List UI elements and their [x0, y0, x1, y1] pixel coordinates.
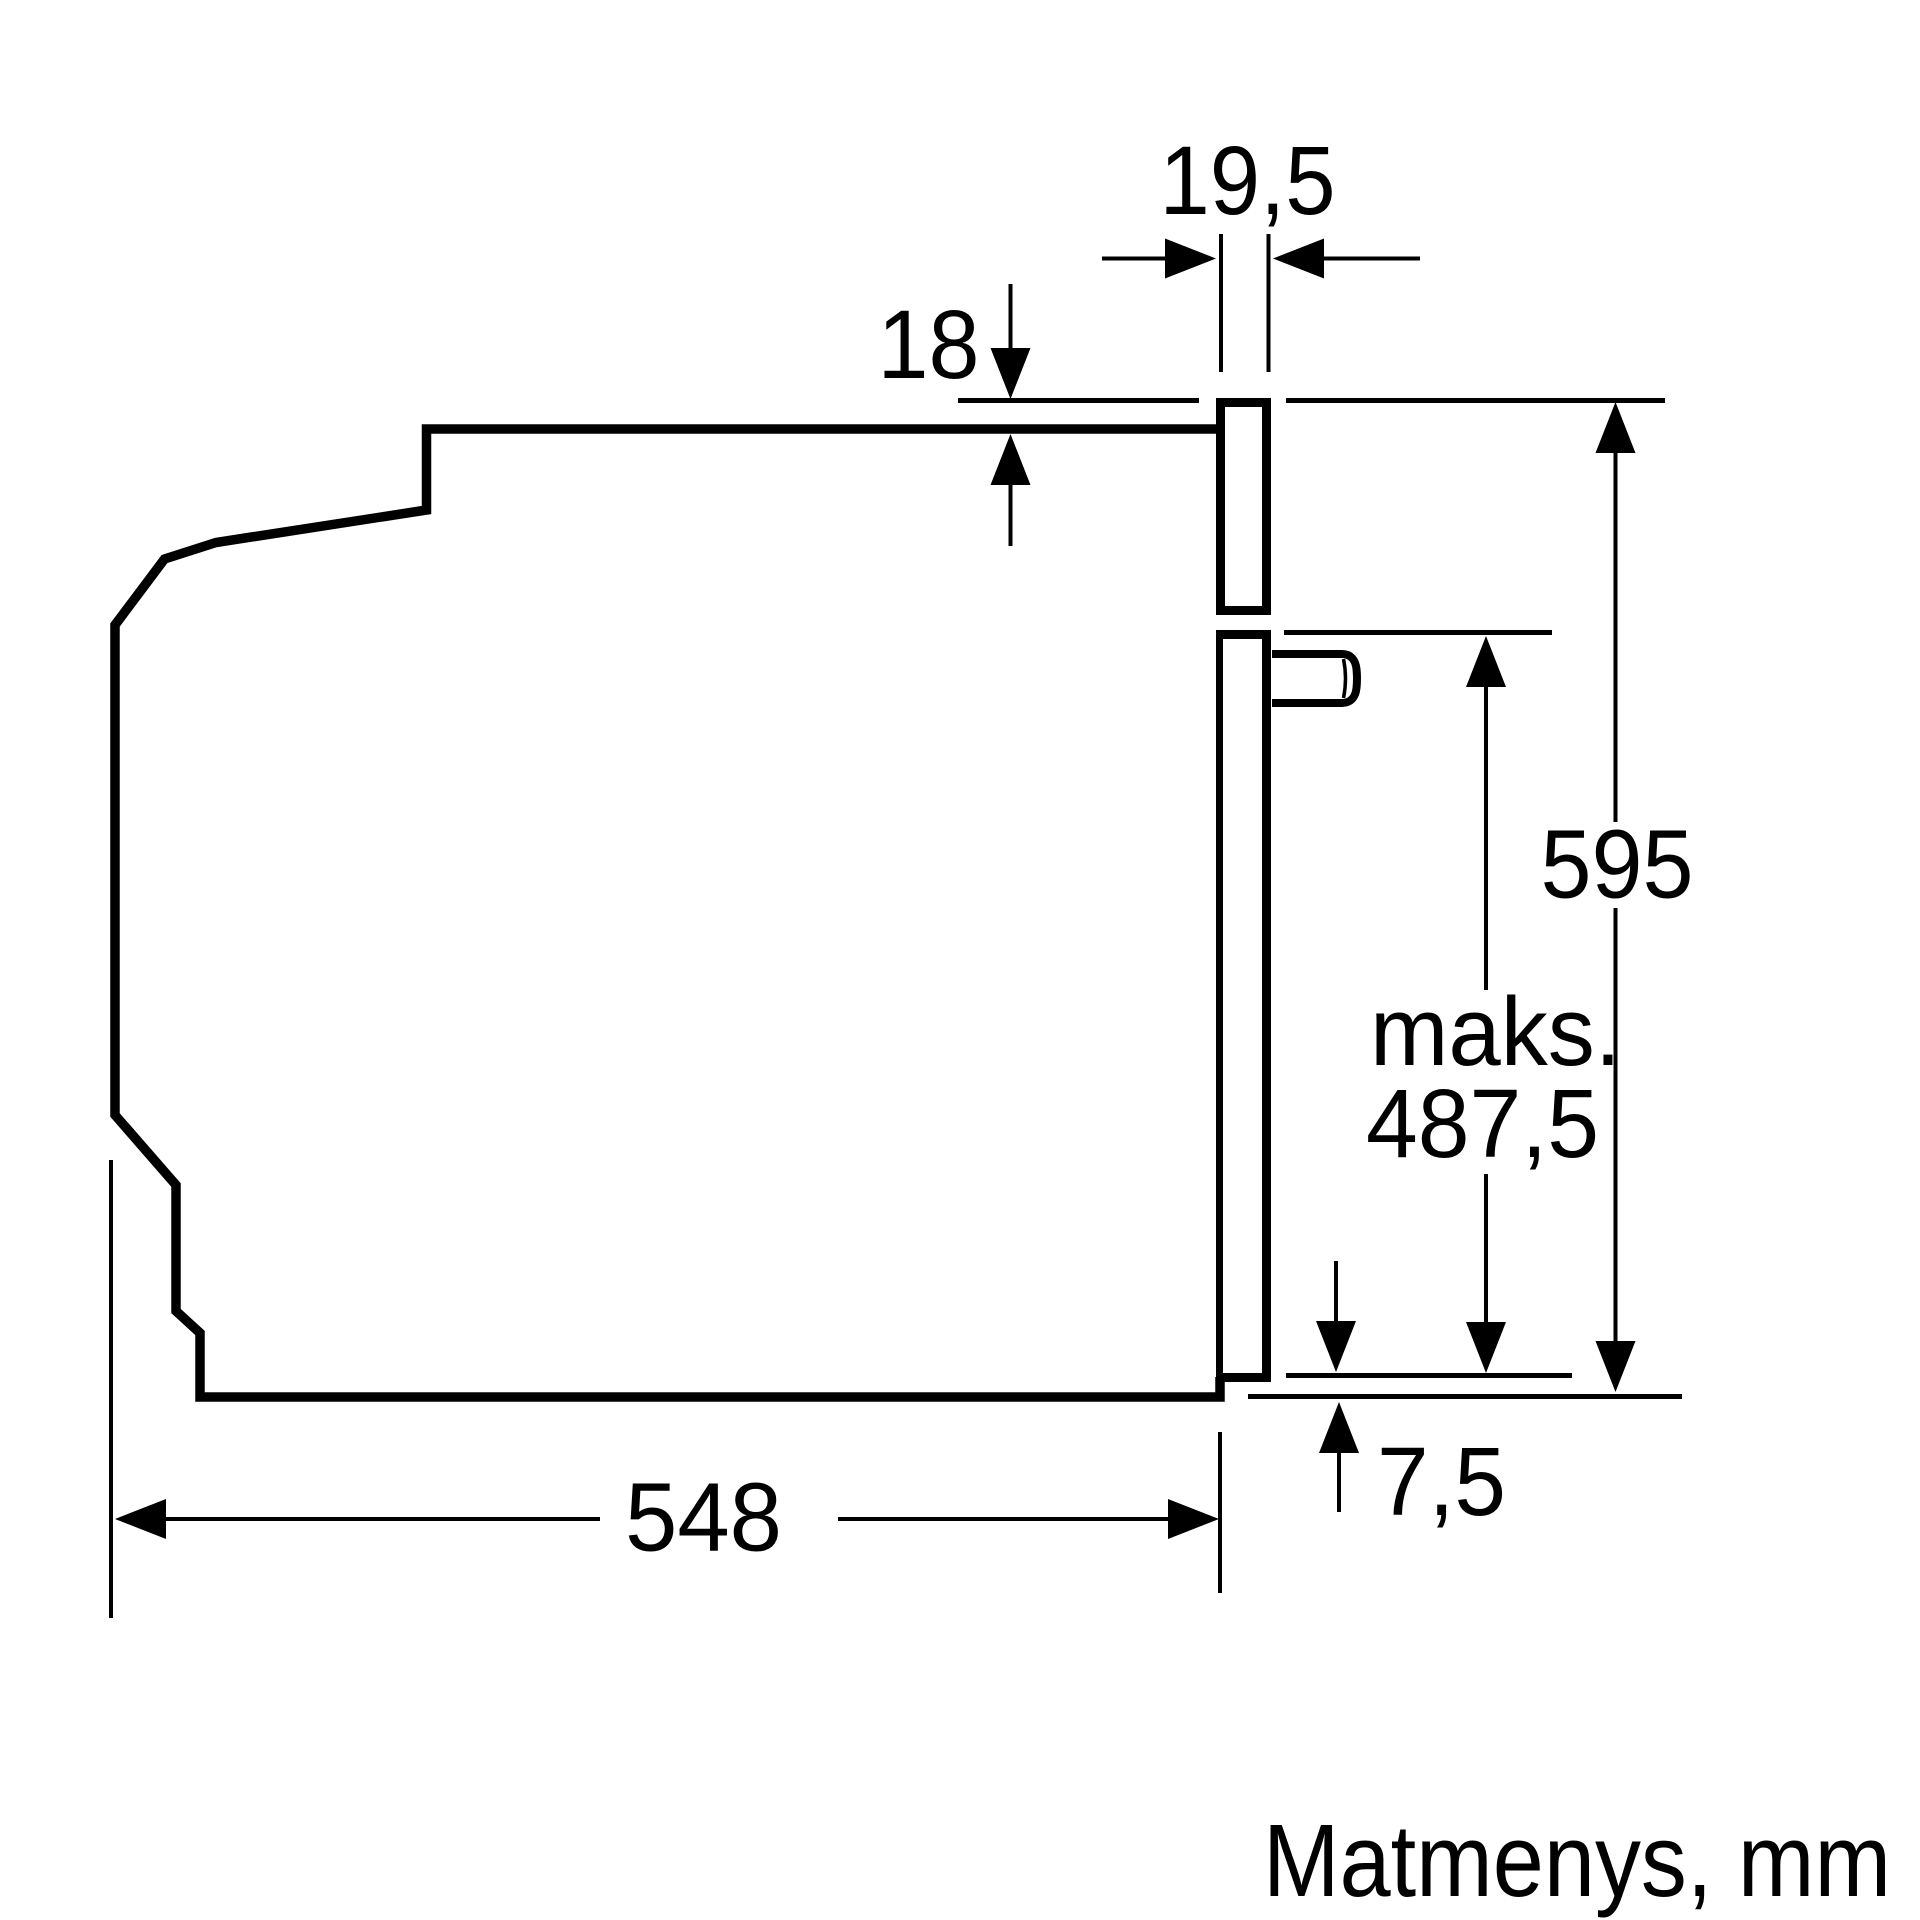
oven bottom extension line: [1248, 1394, 1682, 1399]
dimension 548 left arrow: [115, 1499, 166, 1539]
door handle end cap line: [1344, 659, 1346, 698]
dimension 548 right arrow: [838, 1517, 1170, 1521]
dimension 7,5 upper arrow: [1334, 1261, 1338, 1323]
dimension 7,5 lower arrow: [1319, 1402, 1359, 1453]
oven door front face: [1262, 634, 1271, 1373]
548 right extension line: [1218, 1432, 1222, 1593]
svg-text:7,5: 7,5: [1377, 1427, 1506, 1536]
svg-text:487,5: 487,5: [1366, 1069, 1599, 1178]
niche top extension line (left segment): [958, 398, 1199, 403]
svg-text:19,5: 19,5: [1160, 126, 1336, 235]
oven control panel (upper front rectangle): [1221, 403, 1267, 611]
svg-text:548: 548: [625, 1463, 782, 1572]
niche top extension line (right segment): [1286, 398, 1665, 403]
548 left extension line: [109, 1160, 113, 1618]
oven door bottom edge: [1216, 1373, 1271, 1382]
dimension 18 up arrow: [991, 434, 1031, 485]
dimension 19,5 left arrow: [1102, 257, 1168, 261]
door bottom extension line: [1286, 1373, 1572, 1378]
dimension 19,5 right arrow: [1273, 239, 1324, 279]
svg-text:595: 595: [1541, 810, 1694, 919]
dimension 487,5 top arrow: [1466, 636, 1506, 687]
dimension 595 bottom arrow: [1614, 908, 1618, 1343]
19,5 left extension line: [1219, 234, 1223, 372]
handle top extension line: [1284, 630, 1552, 635]
19,5 right extension line: [1267, 234, 1271, 372]
svg-text:18: 18: [878, 290, 980, 399]
door handle: [1272, 654, 1357, 703]
front mid bar below control panel: [1216, 630, 1271, 639]
oven body outline (side profile): [115, 429, 1220, 1397]
dimension 595 top arrow: [1596, 402, 1636, 453]
dimension 18 down arrow: [1009, 284, 1013, 350]
svg-text:Matmenys, mm: Matmenys, mm: [1263, 1803, 1891, 1918]
dimension 487,5 bottom arrow: [1484, 1174, 1488, 1324]
oven door rear face: [1216, 639, 1223, 1373]
